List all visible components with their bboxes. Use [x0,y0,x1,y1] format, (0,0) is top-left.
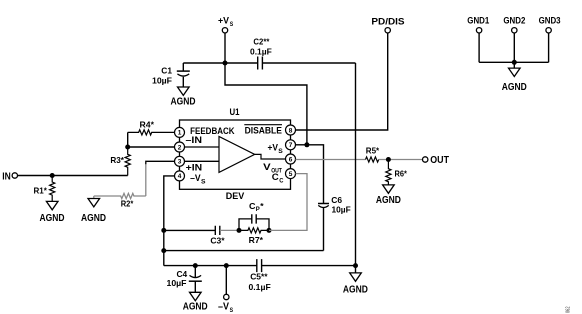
svg-text:10µF: 10µF [152,75,172,85]
svg-text:1: 1 [178,130,182,137]
node -Vs terminal [218,266,233,314]
node junction R5/R6 [386,157,391,162]
node +Vs terminal [218,16,233,33]
svg-text:C2**: C2** [253,37,270,47]
svg-text:+IN: +IN [186,162,203,173]
svg-text:8: 8 [289,127,293,134]
svg-text:AGND: AGND [183,300,208,312]
resistor R6 [386,160,408,185]
svg-text:R3*: R3* [110,155,124,165]
svg-text:S: S [278,149,283,155]
svg-text:0.1µF: 0.1µF [249,282,271,292]
node junction IN [50,173,55,178]
node IN terminal [2,170,17,182]
resistor R2 (gray) [94,193,146,208]
wire junction to C6 top [307,145,324,204]
wire GND1 down [478,33,480,63]
op-amp U1 triangle [219,137,255,173]
svg-text:AGND: AGND [171,96,196,108]
svg-text:R6*: R6* [395,169,408,179]
wire GND2 down [513,33,515,63]
wire gray R5 to OUT [379,159,423,161]
svg-text:DEV: DEV [226,191,245,202]
svg-text:S: S [201,180,206,186]
svg-text:062: 062 [566,307,572,314]
svg-text:C1: C1 [161,65,172,75]
wire GND bus horizontal [479,61,548,63]
resistor R3 [110,147,130,176]
node GND1 terminal [467,15,490,33]
wire right AGND vertical (from +Vs rail corner) [355,63,357,266]
pin 1 [175,127,185,137]
svg-text:S: S [230,22,234,28]
svg-text:3: 3 [178,159,182,166]
pin 6 [286,154,296,164]
wire R4 corner down [127,132,129,147]
resistor R5 [366,145,380,162]
svg-text:R2*: R2* [121,199,134,209]
node junction +Vs rail [223,61,228,66]
pin 3 [175,156,185,166]
ground AGND under C1 [171,87,196,108]
label VOUT pin6 [263,162,282,175]
node junction -Vs / C3 line [161,228,166,233]
wire +Vs rail horizontal [183,62,257,64]
wire gray network right to CC pin 5 [269,174,307,231]
node junction GND bus [512,60,517,65]
svg-text:5: 5 [289,171,293,178]
op-amp U1 outline box [180,107,291,189]
ground AGND under GND bus [502,62,527,93]
resistor R4 [128,119,175,135]
svg-text:DISABLE: DISABLE [245,126,282,137]
svg-text:S: S [230,308,234,314]
svg-text:C: C [279,177,283,184]
svg-text:R4*: R4* [140,119,155,129]
pin 5 [286,169,296,179]
svg-text:C: C [272,172,279,183]
svg-text:6: 6 [289,156,293,163]
svg-text:–V: –V [218,301,229,313]
node junction network right [267,228,272,233]
wire GND3 down [548,33,550,63]
label -Vs pin4 [190,173,205,186]
svg-text:GND2: GND2 [503,15,525,26]
ground AGND under C4 [183,292,208,312]
node junction -Vs / C6 line [161,248,166,253]
capacitor C1 10uF [152,63,190,87]
node junction -Vs terminal [224,263,229,268]
ground AGND under R6 [376,185,401,206]
node junction network left [237,228,242,233]
capacitor C5 0.1uF [249,259,271,292]
label +Vs pin7 [268,142,283,155]
svg-text:–IN: –IN [186,135,203,146]
svg-text:R1*: R1* [34,185,48,195]
svg-text:7: 7 [289,142,293,149]
wire gray C3 to network [220,229,239,231]
capacitor C4 10uF [167,266,202,293]
ground AGND bottom right [343,266,368,296]
svg-text:R7*: R7* [249,235,264,245]
node GND2 terminal [503,15,525,33]
resistor R1 [34,176,55,202]
wire gray +IN vertical [145,164,147,196]
wire C3 line left segment [164,229,216,231]
svg-text:C3*: C3* [210,236,225,246]
svg-text:U1: U1 [230,107,241,118]
wire C2 right to corner [262,62,355,64]
svg-text:C: C [249,201,256,211]
pin 7 [286,140,296,150]
wire pin 3 left and down [146,161,175,165]
svg-text:AGND: AGND [40,212,65,224]
wire +in inside [184,160,219,162]
wire -Vs rail bottom right segment [262,265,356,267]
node GND3 terminal [539,15,561,33]
capacitor C2 0.1uF [250,37,272,70]
wire pin 7 to junction [296,144,307,146]
svg-text:GND1: GND1 [467,15,490,26]
svg-text:0.1µF: 0.1µF [250,46,272,56]
svg-text:–V: –V [190,173,201,184]
svg-text:C5**: C5** [250,272,268,282]
capacitor C3 [210,226,225,246]
node junction R3 top [125,145,130,150]
wire -Vs rail bottom left segment [164,265,257,267]
node junction pin 7 [304,142,309,147]
wire +Vs stub down to rail [224,33,226,63]
wire junction to pin 2 [128,146,175,148]
wire R2 to ground stem [93,196,95,199]
label DISABLE pin8 (with overline) [244,125,282,137]
wire +Vs branch down-right to pin 7 [225,63,307,145]
svg-text:PD/DIS: PD/DIS [371,17,404,28]
wire pin 4 left and down (-Vs rail) [164,176,175,266]
wire gray pin 6 VOUT to R5 [296,159,366,161]
svg-text:AGND: AGND [376,194,401,206]
svg-text:AGND: AGND [343,283,368,295]
wire IN horizontal [18,175,128,177]
svg-text:OUT: OUT [430,154,449,166]
svg-text:10µF: 10µF [332,204,351,214]
label CC pin5 [272,172,284,185]
node junction C4 [193,263,198,268]
pin 4 [175,171,185,181]
svg-text:AGND: AGND [81,212,106,224]
node OUT terminal [423,154,450,166]
svg-text:AGND: AGND [502,81,527,93]
svg-text:4: 4 [178,173,182,180]
pin 2 [175,142,185,152]
svg-text:GND3: GND3 [539,15,561,26]
svg-text:IN: IN [2,170,11,182]
svg-text:+V: +V [268,142,279,153]
capacitor CP (parallel) [239,201,269,231]
node junction bottom right [353,263,358,268]
node PD/DIS terminal [371,17,404,33]
ground AGND under R1 [40,201,65,223]
wire C6 bottom to -Vs rail [164,250,324,252]
resistor R7 [239,228,269,245]
capacitor C6 10uF [318,195,351,250]
ground AGND under R2 [81,199,106,224]
svg-text:R5*: R5* [366,145,380,155]
wire -in inside [184,146,219,148]
pin 8 [286,125,296,135]
svg-text:2: 2 [178,144,182,151]
svg-text:10µF: 10µF [167,278,187,288]
wire PD/DIS down and left to pin 8 [296,33,388,130]
svg-text:+V: +V [218,16,230,27]
wire opamp output to pin 6 [255,154,286,159]
